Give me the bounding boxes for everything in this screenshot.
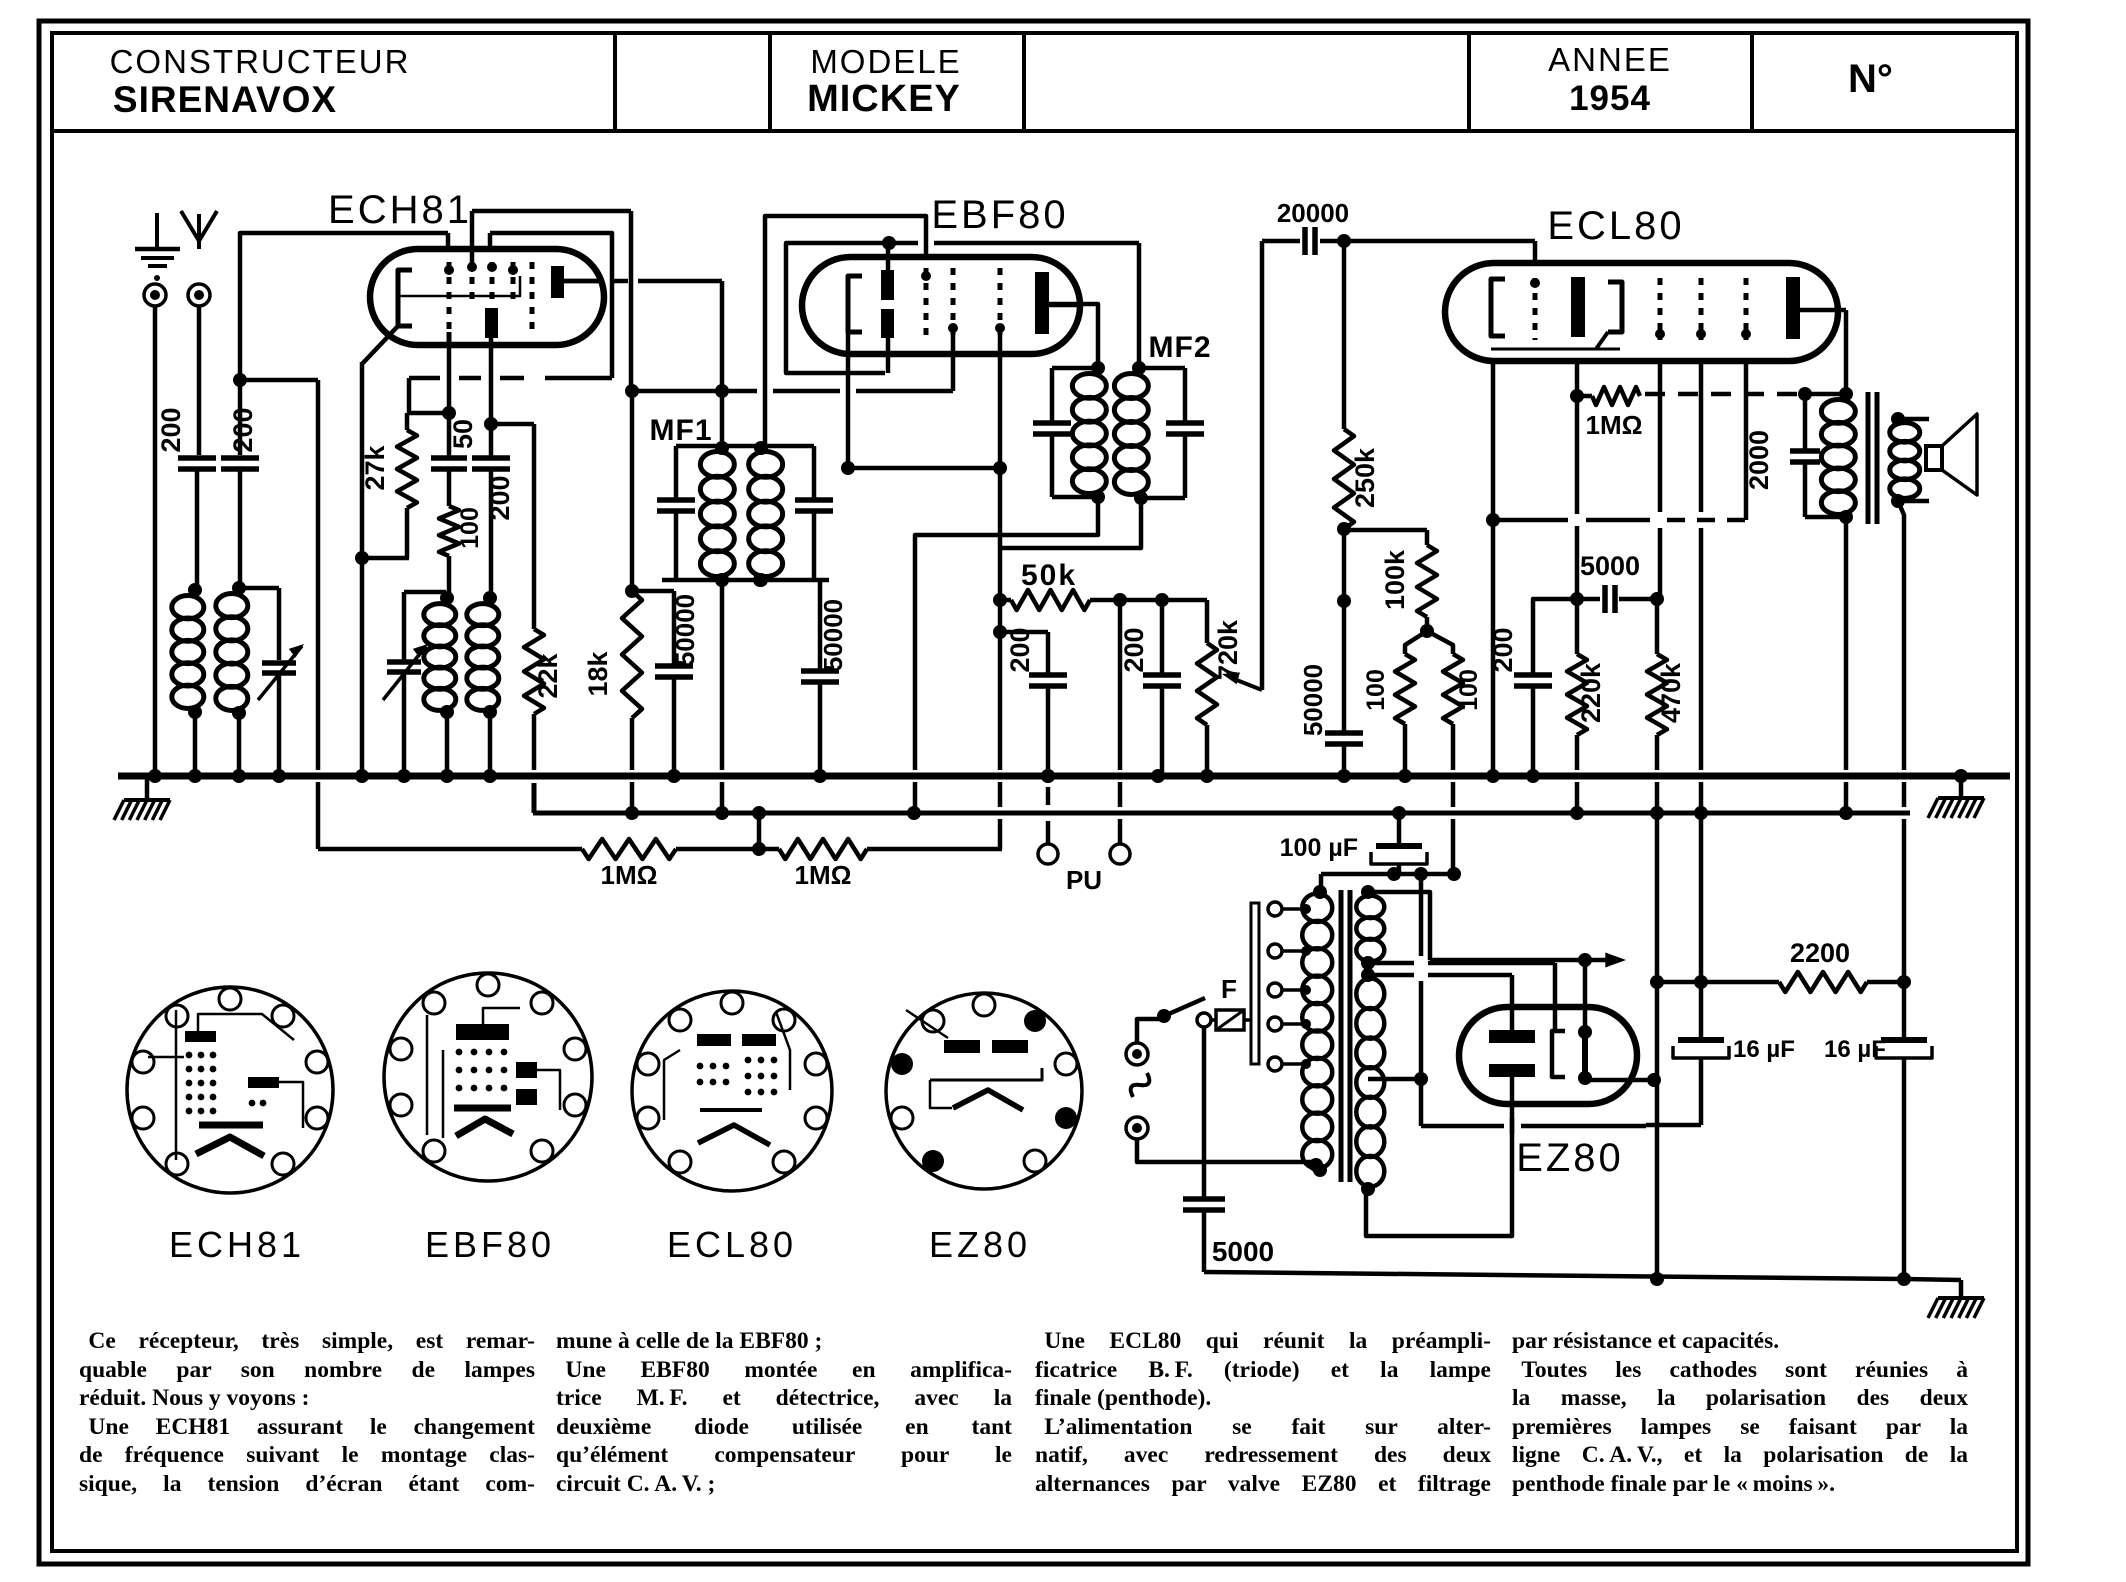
junction g3-second bus xyxy=(1694,806,1708,820)
label 200 det1 xyxy=(1005,627,1035,672)
svg-text:1MΩ: 1MΩ xyxy=(795,860,852,890)
ECL80 grid 1 (dashed) xyxy=(1530,278,1540,340)
socket diagram EBF80 xyxy=(384,973,592,1181)
mains terminal upper xyxy=(1126,1043,1148,1065)
junction 250k bottom xyxy=(1337,522,1351,536)
tube label EBF80 xyxy=(931,193,1068,237)
ECH81 cathode lead xyxy=(362,326,398,364)
resistor 50k xyxy=(1000,590,1207,610)
EBF80 g2 lead xyxy=(951,335,956,391)
junction 50k left xyxy=(993,593,1007,607)
ECL80 g3 lead xyxy=(1699,361,1704,807)
junction 720k-bus xyxy=(1200,769,1214,783)
ECH81 anode xyxy=(551,266,604,298)
resistor 1M-ohm (first) xyxy=(582,839,676,859)
svg-text:5000: 5000 xyxy=(1212,1236,1274,1267)
power transformer core xyxy=(1341,890,1350,1182)
svg-text:18k: 18k xyxy=(583,650,613,696)
junction 200 det2 top xyxy=(1155,593,1169,607)
socket diagram ECH81 xyxy=(127,987,333,1193)
speaker xyxy=(1898,414,1977,501)
EBF80 cathode xyxy=(848,276,862,332)
junction MF2 return-second bus xyxy=(907,806,921,820)
capacitor 16uF (second) xyxy=(1876,982,1932,1279)
transformer tap plate xyxy=(1251,903,1259,1064)
svg-text:50k: 50k xyxy=(1021,559,1077,592)
label 2200 xyxy=(1790,938,1850,968)
svg-text:2000: 2000 xyxy=(1744,430,1774,490)
potentiometer 720k xyxy=(1197,600,1217,776)
ECH81 osc loop top wire xyxy=(472,209,631,214)
svg-text:27k: 27k xyxy=(360,444,390,490)
wire row to primary top xyxy=(1319,874,1324,890)
junction 470k-second bus xyxy=(1650,806,1664,820)
svg-text:ECH81: ECH81 xyxy=(169,1224,305,1265)
ECL80 pentode anode xyxy=(1786,277,1846,394)
svg-text:22k: 22k xyxy=(533,652,563,698)
EZ80 cathode bar xyxy=(1578,1025,1592,1085)
junction 50000AF-bus xyxy=(1337,769,1351,783)
resistor 2200 xyxy=(1701,972,1904,992)
EBF80 anode lead to MF2 xyxy=(1049,304,1098,368)
junction 50k-200 cap xyxy=(993,625,1007,639)
junction 2200 right xyxy=(1897,975,1911,989)
junction rail-bottom xyxy=(1650,1272,1664,1286)
junction 20000-250k xyxy=(1337,234,1351,248)
ECH81 grid 1 (dashed) xyxy=(444,262,454,332)
svg-text:N°: N° xyxy=(1848,57,1893,101)
wire PU line down xyxy=(1118,600,1123,844)
wire wiper to 20000 xyxy=(1260,241,1265,690)
label 20000 xyxy=(1277,198,1349,228)
ECH81 g1 lead down xyxy=(447,332,452,456)
label 720k xyxy=(1213,619,1243,680)
MF2 primary coil xyxy=(1072,374,1106,504)
ECH81 cathode xyxy=(398,270,412,326)
svg-text:100: 100 xyxy=(1362,669,1390,711)
EZ80 cathode up lead xyxy=(1583,960,1588,1032)
ECH81 inner screen wire xyxy=(398,276,520,296)
svg-text:200: 200 xyxy=(485,475,515,520)
svg-text:200: 200 xyxy=(228,407,258,452)
wire 100R to heater row xyxy=(1451,782,1456,874)
label 100k xyxy=(1380,549,1410,610)
earth terminal xyxy=(144,284,166,306)
MF1 primary bottom to second bus xyxy=(715,580,729,820)
wire HT mid tap xyxy=(1368,1072,1428,1086)
junction 16uF1 top xyxy=(1694,975,1708,989)
EBF80 grid 2 (dashed) xyxy=(948,268,958,335)
svg-text:16 µF: 16 µF xyxy=(1824,1036,1886,1063)
ECL80 triode anode xyxy=(1571,277,1585,337)
PU terminal 1 xyxy=(1038,787,1058,864)
junction 490-424 xyxy=(484,417,498,431)
junction PU line xyxy=(1113,593,1127,607)
ECL80 g2 lead xyxy=(1658,361,1663,599)
ECH81 grid 4 xyxy=(508,262,518,300)
svg-text:16 µF: 16 µF xyxy=(1733,1036,1795,1063)
junction CV1-bus xyxy=(272,769,286,783)
antenna terminal xyxy=(188,284,210,306)
junction 100k bottom xyxy=(1420,617,1434,638)
junction 200k-bus xyxy=(1526,769,1540,783)
coil L2 antenna secondary xyxy=(216,581,248,776)
junction 100L-bus xyxy=(1398,769,1412,783)
svg-text:200: 200 xyxy=(1005,627,1035,672)
socket label EZ80 xyxy=(929,1224,1031,1265)
label 470k xyxy=(1656,662,1686,723)
node CAV tap xyxy=(233,373,247,387)
tube EBF80 envelope xyxy=(802,257,1080,354)
svg-text:720k: 720k xyxy=(1213,619,1243,680)
svg-text:2200: 2200 xyxy=(1790,938,1850,968)
capacitor 200 (cathode) xyxy=(1514,675,1552,776)
ECL80 grid 2 (dashed) xyxy=(1655,278,1665,340)
EZ80 cathode bracket xyxy=(1552,1031,1565,1077)
MF1 primary coil xyxy=(700,441,734,587)
svg-text:EZ80: EZ80 xyxy=(1516,1136,1624,1180)
junction 18k-second bus xyxy=(625,806,639,820)
EZ80 diode plate 2 xyxy=(1489,1064,1535,1077)
label 100 right xyxy=(1455,669,1483,711)
MF2 tuning cap secondary xyxy=(1139,368,1204,498)
ECH81 cathode down-lead xyxy=(360,362,365,776)
ECH81 heater bar xyxy=(485,308,498,345)
wire to 200 cap det xyxy=(1000,632,1048,673)
720k wiper arrow xyxy=(1222,672,1262,690)
svg-text:100: 100 xyxy=(1455,669,1483,711)
wire MF1 secondary top to EBF80 grid xyxy=(761,216,926,446)
wire lower terminal to primary xyxy=(1137,1139,1323,1172)
header label ANNEE xyxy=(1548,41,1672,78)
junction PU1-bus xyxy=(1041,769,1055,783)
wire to 27k top xyxy=(409,378,449,413)
junction 220k-second bus xyxy=(1570,806,1584,820)
tube label EZ80 xyxy=(1516,1136,1624,1180)
svg-text:100: 100 xyxy=(456,507,484,549)
svg-text:EBF80: EBF80 xyxy=(425,1224,555,1265)
capacitor 200 (antenna series) xyxy=(178,458,216,588)
HT winding xyxy=(1356,968,1384,1196)
ECH81 anode wire to MF1 xyxy=(564,281,722,446)
junction 16uF2-bottom rail xyxy=(1897,1272,1911,1286)
resistor 100 (right) xyxy=(1427,631,1463,770)
earth symbol xyxy=(135,213,180,281)
tube ECL80 envelope xyxy=(1445,263,1838,361)
capacitor 5000 (line) xyxy=(1183,1199,1225,1272)
wire HT top to EZ80 plate xyxy=(1368,975,1512,1030)
wire upper terminal to switch xyxy=(1137,1019,1160,1043)
resistor 100 xyxy=(439,469,459,596)
resistor 250k xyxy=(1334,241,1354,529)
MF1 tuning cap primary xyxy=(657,446,695,580)
ECH81 pin wire g-top to osc loop xyxy=(470,211,475,262)
wire heater top xyxy=(1368,892,1430,960)
junction second bus 100uF xyxy=(1392,806,1406,820)
socket diagram EZ80 xyxy=(886,993,1082,1189)
wire primary down to second bus xyxy=(1844,517,1849,807)
bottom rail xyxy=(1204,1272,1961,1280)
tube ECH81 envelope xyxy=(370,249,604,345)
wire switch circle down to 5000 xyxy=(1202,1028,1207,1197)
MF2 bottom rail primary xyxy=(1052,495,1098,500)
fuse F xyxy=(1211,1010,1251,1030)
right vertical line (cathode rail) xyxy=(1655,813,1660,1276)
EBF80 diode loop above xyxy=(786,236,1139,373)
label F xyxy=(1221,974,1237,1004)
MF2 top rail primary xyxy=(1052,361,1105,375)
capacitor 50000 (MF1 decoupling) xyxy=(801,580,839,776)
label PU xyxy=(1066,865,1102,895)
EBF80 g3 lead xyxy=(993,335,1007,849)
EBF80 diode plate lower xyxy=(881,309,894,338)
second bus (CAV / minus line) xyxy=(533,811,1910,816)
coil L1 antenna primary xyxy=(172,583,204,776)
svg-text:50: 50 xyxy=(448,419,478,449)
ECH81 grid 2 xyxy=(467,262,477,300)
output transformer primary xyxy=(1821,394,1855,524)
resistor 100 (left) xyxy=(1395,631,1427,776)
junction L2-bus xyxy=(232,769,246,783)
wire top-left to ECH81 g xyxy=(240,233,448,378)
svg-text:EZ80: EZ80 xyxy=(929,1224,1031,1265)
capacitor 100uF xyxy=(1371,813,1427,874)
capacitor 50000 (screen) xyxy=(655,591,693,776)
svg-text:5000: 5000 xyxy=(1580,551,1640,581)
MF1 secondary coil xyxy=(749,441,783,587)
label 250k xyxy=(1350,447,1380,508)
EZ80 cathode out wire xyxy=(1585,1073,1661,1087)
wire y378 right-to-left xyxy=(409,376,612,381)
svg-text:50000: 50000 xyxy=(1298,664,1328,736)
junction 2000 top xyxy=(1798,387,1812,401)
ECH81 heater/g lead down xyxy=(489,345,494,422)
svg-text:1954: 1954 xyxy=(1569,79,1651,118)
tube label ECH81 xyxy=(328,188,472,232)
label 5000 line xyxy=(1212,1236,1274,1267)
junction 50000 MF1 - bus xyxy=(813,769,827,783)
resistor 27k xyxy=(397,413,417,558)
wire L2 top to tuning cap xyxy=(239,588,279,660)
MF2 tuning cap primary xyxy=(1033,368,1071,497)
label 1M first xyxy=(601,860,658,890)
label 50000 screen xyxy=(670,594,700,666)
label 100 left xyxy=(1362,669,1390,711)
EZ80 diode plate 1 xyxy=(1489,1030,1535,1043)
coil L3 oscillator xyxy=(424,591,456,776)
label 200 cathode xyxy=(1488,627,1518,672)
resistor 18k xyxy=(622,591,642,813)
B+ arrow line xyxy=(1430,953,1626,968)
EZ80 plate2 lead xyxy=(1366,1077,1512,1236)
svg-text:MF1: MF1 xyxy=(650,414,713,447)
label 5000 tone xyxy=(1580,551,1640,581)
EBF80 diode plate upper xyxy=(881,270,894,300)
ECL80 grid 4 (dashed) xyxy=(1741,278,1751,340)
B+ rail xyxy=(1650,975,1701,989)
wire MF2 primary return xyxy=(915,497,1098,807)
socket label EBF80 xyxy=(425,1224,555,1265)
wire 18k top xyxy=(625,391,674,598)
label 50000 AF xyxy=(1298,664,1328,736)
capacitor 200 (RF coupling) xyxy=(221,380,259,588)
capacitor 5000 (tone) xyxy=(1577,585,1657,613)
svg-text:F: F xyxy=(1221,974,1237,1004)
heater winding xyxy=(1356,885,1384,970)
wire xfmr return line xyxy=(1421,874,1646,1126)
label 100 xyxy=(456,507,484,549)
label 18k xyxy=(583,650,613,696)
junction L3-bus xyxy=(440,769,454,783)
header value 1954 xyxy=(1569,79,1651,118)
svg-text:50000: 50000 xyxy=(670,594,700,666)
label 2000 xyxy=(1744,430,1774,490)
ECH81 osc loop down wire xyxy=(625,211,639,398)
svg-text:50000: 50000 xyxy=(818,599,848,671)
wire earth terminal to bus xyxy=(153,306,158,776)
MF2 secondary top lead xyxy=(1137,243,1142,368)
svg-text:EBF80: EBF80 xyxy=(931,193,1068,237)
PU terminal 2 xyxy=(1110,844,1130,864)
EBF80 grid 1 (dashed) xyxy=(921,268,931,335)
label 1M second xyxy=(795,860,852,890)
ECL80 g4 lead xyxy=(1744,361,1749,520)
junction L4-bus xyxy=(483,769,497,783)
MF2 secondary bottom wire xyxy=(1000,498,1141,548)
wire speaker return down xyxy=(1898,501,1904,982)
MF1 bottom rail xyxy=(662,573,829,587)
ECL80 cathode1 lead xyxy=(1486,361,1500,776)
svg-text:470k: 470k xyxy=(1656,662,1686,723)
junction 50000-bus xyxy=(667,769,681,783)
capacitor 200 (osc) xyxy=(472,424,510,597)
resistor 470k xyxy=(1647,599,1667,807)
label 16uF second xyxy=(1824,1036,1886,1063)
wire 632-391 to MF1 lead xyxy=(632,384,953,398)
EZ80 heater lead xyxy=(1553,963,1558,1031)
header table xyxy=(52,33,2017,131)
svg-text:ANNEE: ANNEE xyxy=(1548,41,1672,78)
svg-text:ECL80: ECL80 xyxy=(667,1224,797,1265)
ECL80 triode anode lead xyxy=(1570,361,1584,599)
junction cathode-bus xyxy=(355,769,369,783)
svg-text:220k: 220k xyxy=(1576,662,1606,723)
resistor 22k xyxy=(524,629,544,770)
svg-text:ECL80: ECL80 xyxy=(1547,204,1684,248)
ECH81 grid 3 xyxy=(487,262,497,300)
resistor 1M-ohm (grid leak) xyxy=(1577,387,1640,405)
mains terminal lower xyxy=(1126,1117,1148,1139)
svg-text:20000: 20000 xyxy=(1277,198,1349,228)
ground symbol right top xyxy=(1928,769,1984,818)
junction 200det2-bus xyxy=(1151,769,1165,783)
variable capacitor CV2 oscillator xyxy=(383,592,446,776)
MF2 secondary coil xyxy=(1114,361,1148,505)
output transformer secondary xyxy=(1890,412,1920,508)
EBF80 grid 3 (dashed) xyxy=(995,268,1005,335)
MF1 top rail xyxy=(676,444,761,449)
wire CAV tap to down-lead xyxy=(240,378,318,383)
wire cathode to 27k bottom xyxy=(355,551,409,565)
label 220k xyxy=(1576,662,1606,723)
switch xyxy=(1157,998,1211,1027)
label 22k xyxy=(533,652,563,698)
header label MODELE xyxy=(810,43,961,80)
heater node row xyxy=(1321,867,1461,881)
label 200 coupling cap xyxy=(228,407,258,452)
antenna symbol xyxy=(181,211,217,249)
label 50 xyxy=(448,419,478,449)
wire 5000 to 200 cap xyxy=(1533,599,1577,673)
label 1M grid leak xyxy=(1586,410,1643,440)
wire 250k to 100k xyxy=(1337,529,1427,608)
junction 200det1-bus xyxy=(1041,769,1055,783)
output transformer core xyxy=(1868,392,1877,524)
second bus left corner from 22k xyxy=(532,783,537,813)
ECL80 cathode 1 xyxy=(1491,279,1505,336)
label AC (tilde) xyxy=(1131,1073,1150,1097)
capacitor 20000 (coupling) xyxy=(1262,227,1344,255)
resistor 1M-ohm (second) xyxy=(779,839,867,859)
resistor 100k xyxy=(1417,545,1437,617)
ECL80 inner cathode link xyxy=(1491,348,1620,351)
label 16uF first xyxy=(1733,1036,1795,1063)
capacitor 50000 (AF) xyxy=(1325,601,1363,776)
svg-text:200: 200 xyxy=(1488,627,1518,672)
ground bus (chassis) xyxy=(118,773,2010,780)
ECH81 grid 5 (dashed) xyxy=(530,262,535,332)
capacitor 200 (detector 2) xyxy=(1143,600,1181,776)
ECL80 cathode 2 xyxy=(1596,282,1622,349)
svg-text:MF2: MF2 xyxy=(1149,331,1212,364)
tube label ECL80 xyxy=(1547,204,1684,248)
capacitor 16uF (first) xyxy=(1646,819,1729,1125)
ECH81 pin wire top right xyxy=(490,233,612,378)
coil L4 oscillator xyxy=(467,591,499,776)
svg-text:1MΩ: 1MΩ xyxy=(601,860,658,890)
svg-text:SIRENAVOX: SIRENAVOX xyxy=(113,79,337,120)
svg-text:ECH81: ECH81 xyxy=(328,188,472,232)
label 50k xyxy=(1021,559,1077,592)
variable capacitor CV1 xyxy=(258,644,304,776)
wire down-lead to CAV rail xyxy=(316,380,321,849)
label MF2 xyxy=(1149,331,1212,364)
ground symbol left xyxy=(114,779,170,820)
AVC dash line right xyxy=(1645,392,1800,397)
EBF80 anode xyxy=(1035,272,1080,334)
svg-text:250k: 250k xyxy=(1350,447,1380,508)
svg-text:200: 200 xyxy=(1119,627,1149,672)
wire 20000 to ECL80 g1 xyxy=(1344,241,1535,263)
label 100uF xyxy=(1280,834,1358,862)
CAV rail right segment xyxy=(867,847,1002,852)
header label CONSTRUCTEUR xyxy=(110,43,411,80)
svg-text:PU: PU xyxy=(1066,865,1102,895)
svg-text:1MΩ: 1MΩ xyxy=(1586,410,1643,440)
header value MICKEY xyxy=(807,78,961,120)
socket label ECL80 xyxy=(667,1224,797,1265)
junction CV2-bus xyxy=(397,769,411,783)
svg-text:CONSTRUCTEUR: CONSTRUCTEUR xyxy=(110,43,411,80)
junction g1-27k xyxy=(442,406,456,420)
junction 5000 left xyxy=(1570,592,1584,606)
label 200 det2 xyxy=(1119,627,1149,672)
label 200 osc cap xyxy=(485,475,515,520)
ECL80 grid 3 (dashed) xyxy=(1696,278,1706,340)
wire antenna terminal down xyxy=(197,306,202,455)
junction 5000 right xyxy=(1650,592,1664,606)
CAV rail mid segment xyxy=(676,806,779,856)
